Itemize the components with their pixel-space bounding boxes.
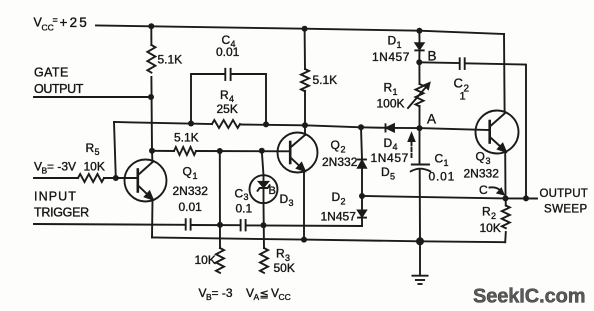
svg-text:1: 1 — [460, 91, 466, 103]
label D1 1N457 — [372, 34, 410, 65]
label D3 — [280, 192, 294, 208]
resistor R5 10K — [78, 174, 104, 182]
node gate rail — [148, 94, 154, 100]
svg-text:1N457: 1N457 — [371, 151, 409, 165]
label Q2 2N332 — [322, 138, 358, 169]
wire R5/base line — [34, 177, 78, 179]
transistor Q3 symbol — [490, 114, 506, 152]
wire Q1 emitter vertical — [151, 200, 154, 238]
wire D5 to node — [361, 168, 363, 196]
current arrow i (dashed) — [409, 134, 415, 157]
wire Q3 emitter lead — [504, 152, 506, 199]
svg-text:CC: CC — [279, 292, 291, 302]
svg-text:3: 3 — [486, 156, 491, 166]
capacitor C2 plates — [460, 58, 465, 69]
svg-text:R: R — [220, 88, 229, 102]
wire D5/D2 vertical top — [361, 127, 362, 159]
wire Vcc top rail — [96, 26, 504, 35]
node C label — [479, 183, 488, 197]
svg-text:C: C — [479, 183, 488, 197]
svg-text:B: B — [269, 185, 276, 197]
capacitor 0.01 (trigger) plates — [186, 219, 191, 229]
svg-text:0.01: 0.01 — [179, 200, 203, 214]
svg-text:D: D — [332, 190, 341, 204]
wire D3 top vertical — [262, 151, 264, 175]
svg-text:+25: +25 — [60, 15, 90, 30]
node B — [416, 59, 422, 65]
wire 5.1K right vertical upper — [304, 29, 306, 69]
resistor 5.1K (right vertical) — [301, 69, 309, 91]
node Q2 collector x R4 line — [302, 122, 308, 128]
svg-text:10K: 10K — [84, 160, 105, 174]
transistor Q2 circle — [278, 133, 318, 173]
svg-text:R: R — [384, 81, 393, 95]
svg-text:5.1K: 5.1K — [158, 53, 183, 67]
capacitor C1 — [411, 165, 430, 172]
transistor Q3 circle — [476, 111, 519, 154]
wire mid feedback line right — [240, 125, 385, 128]
diode D3 zener symbol — [258, 175, 270, 203]
node C output — [503, 195, 509, 201]
svg-text:10K: 10K — [480, 221, 501, 235]
node Vcc x D1 — [416, 28, 422, 34]
svg-text:= -3: = -3 — [212, 286, 233, 300]
wire node B to C2 — [419, 61, 459, 64]
svg-text:=: = — [53, 15, 58, 25]
wire Q1 collector lead — [151, 151, 153, 162]
svg-text:D: D — [384, 136, 393, 150]
svg-text:0.01: 0.01 — [429, 170, 456, 184]
wire R2 leads — [504, 198, 507, 242]
svg-text:SeekIC.com: SeekIC.com — [473, 286, 585, 308]
svg-text:3: 3 — [244, 192, 249, 202]
wire Q2 emitter lead — [303, 170, 305, 240]
svg-text:5: 5 — [390, 172, 395, 182]
node A — [417, 125, 423, 131]
wire trigger line mid — [191, 224, 240, 226]
node R4 box left — [188, 121, 194, 127]
wire ground stem — [419, 241, 421, 275]
svg-text:2: 2 — [341, 197, 346, 207]
label VB=-3V 10K — [34, 160, 105, 176]
svg-text:1: 1 — [444, 158, 449, 168]
svg-text:D: D — [381, 165, 390, 179]
wire D1 to node B — [418, 50, 420, 62]
svg-text:3: 3 — [289, 198, 294, 208]
node B label — [428, 49, 437, 64]
wire Q2 collector lead — [304, 125, 306, 135]
node Q1 base x R5 — [113, 175, 119, 181]
label 10K lower left — [195, 253, 216, 267]
label C2 1 — [454, 76, 470, 103]
node Vcc x 5.1K right — [302, 26, 308, 32]
node D5 x D2 x emitter line — [359, 193, 365, 199]
node R4 box right — [263, 121, 269, 127]
node 5.1K x C3 vertical — [217, 148, 223, 154]
transistor Q1 circle — [125, 160, 167, 202]
wire Q3 collector from Vcc — [503, 34, 506, 112]
resistor R2 10K — [502, 206, 510, 229]
svg-text:0.01: 0.01 — [216, 45, 240, 59]
capacitor C4 plates — [225, 69, 230, 80]
resistor 10K (lower left) — [216, 248, 224, 273]
node trigger x D3 — [261, 222, 267, 228]
label C1 0.01 — [429, 152, 456, 184]
svg-text:C: C — [435, 152, 444, 166]
wire node A to C1 — [419, 128, 421, 164]
node A label — [427, 112, 436, 127]
svg-text:50K: 50K — [274, 261, 295, 275]
wire 5.1K to Q2 collector node — [304, 91, 306, 126]
label R1 100K — [377, 81, 405, 111]
label R4 25K — [217, 88, 238, 116]
svg-text:5.1K: 5.1K — [313, 73, 338, 87]
label VB=-3 — [199, 286, 233, 302]
svg-text:D: D — [280, 192, 289, 206]
svg-text:25K: 25K — [217, 102, 238, 116]
svg-text:= -3V: = -3V — [47, 160, 76, 174]
breakdown diode D3 circle — [250, 175, 278, 203]
svg-text:R: R — [86, 141, 95, 155]
transistor Q2 symbol — [290, 135, 305, 171]
wire D3 bottom vertical — [263, 203, 266, 248]
potentiometer R1 100K — [408, 83, 430, 108]
svg-text:5: 5 — [95, 147, 100, 157]
label GATE OUTPUT — [34, 66, 84, 97]
svg-text:≦: ≦ — [260, 289, 269, 301]
diode D1 — [415, 43, 423, 50]
label C3 0.1 — [235, 187, 253, 216]
node Q2 emitter x bottom line — [301, 237, 307, 243]
svg-text:5.1K: 5.1K — [174, 131, 199, 145]
diode D2 — [358, 210, 366, 217]
svg-text:Q: Q — [183, 165, 192, 179]
svg-text:10K: 10K — [195, 253, 216, 267]
wire left vertical rail lower — [150, 77, 153, 151]
label R5 — [86, 141, 100, 157]
label R3 50K — [274, 247, 295, 276]
wire R1 to node A — [419, 106, 421, 128]
label 5.1K mid — [174, 131, 199, 145]
svg-text:OUTPUT: OUTPUT — [34, 82, 84, 96]
svg-text:1: 1 — [393, 87, 398, 97]
wire bottom emitter line — [152, 238, 505, 243]
svg-text:2N332: 2N332 — [322, 155, 358, 169]
svg-text:B: B — [428, 49, 437, 64]
wire mid feedback line left — [114, 122, 212, 124]
svg-text:A: A — [427, 112, 436, 127]
svg-text:0.1: 0.1 — [236, 202, 253, 216]
svg-text:2N332: 2N332 — [173, 184, 209, 198]
node C2 x output line — [523, 195, 529, 201]
svg-text:1: 1 — [193, 171, 198, 181]
svg-text:R: R — [482, 205, 491, 219]
node trigger x 10K — [217, 222, 223, 228]
label D4 1N457 D5 — [371, 136, 409, 182]
label 5.1K right — [313, 73, 338, 87]
svg-text:2: 2 — [341, 145, 346, 155]
capacitor C3 plates — [241, 220, 246, 230]
label Q1 2N332 0.01 — [173, 165, 209, 215]
svg-text:INPUT: INPUT — [34, 190, 77, 204]
label INPUT TRIGGER — [34, 190, 89, 220]
resistor R4 25K — [212, 120, 240, 128]
svg-text:Q: Q — [331, 138, 340, 152]
resistor 5.1K (left vertical) — [147, 45, 155, 73]
wire GATE output line — [34, 96, 151, 98]
wire node A to Q3 base — [420, 128, 490, 130]
svg-text:TRIGGER: TRIGGER — [34, 206, 89, 220]
transistor Q1 symbol — [138, 162, 153, 200]
label VA<=Vcc — [246, 286, 291, 302]
wire R5 to Q1 base — [104, 177, 138, 179]
node Vcc x 5.1K left — [148, 23, 154, 29]
svg-text:C: C — [454, 76, 463, 91]
node D5 top x R4 line — [358, 124, 364, 130]
logo SeekIC.com — [473, 286, 585, 308]
wire C3/10K vertical — [219, 151, 221, 248]
label B inside D3 — [269, 185, 276, 197]
label D2 1N457 — [321, 190, 357, 224]
capacitor C4 box left edge — [191, 74, 225, 124]
svg-text:2: 2 — [491, 211, 496, 221]
svg-text:SWEEP: SWEEP — [544, 204, 588, 216]
svg-text:OUTPUT: OUTPUT — [540, 188, 588, 200]
wire D2 leads — [361, 196, 362, 226]
wire 5.1K to Q2 base — [196, 150, 290, 152]
diode D4 — [386, 124, 395, 131]
svg-text:2N332: 2N332 — [464, 167, 500, 181]
wire feedback left vertical — [114, 122, 116, 178]
resistor 5.1K (Q1 collector to Q2 base) — [174, 147, 196, 155]
svg-text:C: C — [235, 187, 244, 201]
svg-text:GATE: GATE — [34, 66, 69, 80]
diode D5 — [358, 160, 366, 168]
svg-text:1N457: 1N457 — [321, 210, 357, 224]
wire input trigger line left — [34, 223, 185, 226]
capacitor C4 box right edge — [231, 74, 266, 124]
svg-text:100K: 100K — [377, 97, 405, 111]
node ground junction — [416, 237, 424, 245]
wire 5.1K collector line left — [152, 150, 174, 152]
wire trigger line right — [246, 224, 362, 227]
label Q3 2N332 — [464, 150, 500, 181]
label OUTPUT SWEEP — [540, 188, 588, 216]
svg-text:R: R — [276, 247, 285, 261]
resistor R3 50K — [260, 248, 268, 273]
svg-text:D: D — [388, 34, 397, 48]
wire node B to R1 — [418, 62, 420, 84]
node Q2 base x D3 — [259, 148, 265, 154]
label 5.1K left — [158, 53, 183, 67]
ground — [412, 276, 427, 284]
wire D1 top lead — [418, 31, 420, 43]
svg-text:1: 1 — [397, 40, 402, 50]
label Vcc = +25 — [34, 15, 90, 33]
wire emitter/output line — [362, 196, 537, 199]
wire C1 to ground rail — [419, 170, 421, 242]
wire D4 to node A — [394, 127, 420, 129]
label C4 0.01 — [216, 33, 240, 59]
node C arrow — [490, 187, 504, 194]
label R2 10K — [480, 205, 501, 236]
wire C2 to right vertical — [465, 63, 526, 198]
node Q1 collector — [149, 148, 155, 154]
svg-text:Q: Q — [476, 150, 485, 164]
svg-text:1N457: 1N457 — [372, 50, 410, 64]
wire left vertical rail upper — [150, 26, 152, 45]
